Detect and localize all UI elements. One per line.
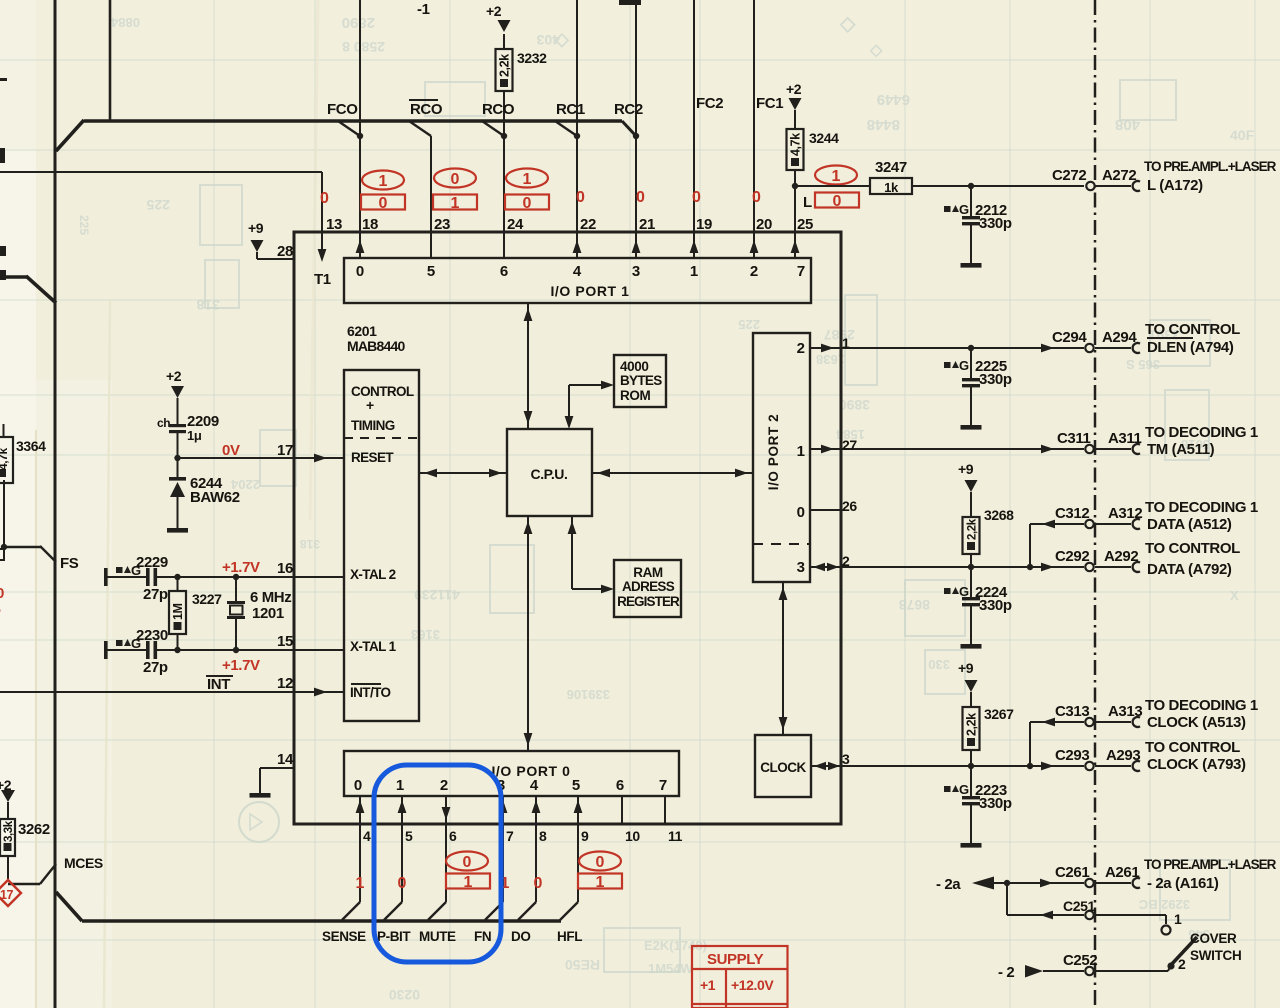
svg-text:- 2a: - 2a xyxy=(936,876,961,893)
svg-text:C292: C292 xyxy=(1055,548,1089,565)
svg-text:RC2: RC2 xyxy=(614,101,643,118)
svg-text:COVER: COVER xyxy=(1190,931,1237,946)
svg-text:RAM: RAM xyxy=(633,565,663,580)
svg-text:G: G xyxy=(959,358,969,373)
svg-text:TM (A511): TM (A511) xyxy=(1147,441,1215,458)
svg-text:2: 2 xyxy=(750,263,758,280)
svg-text:C261: C261 xyxy=(1055,864,1089,881)
svg-text:A293: A293 xyxy=(1106,747,1140,764)
svg-text:0: 0 xyxy=(833,193,842,210)
svg-text:X-TAL 1: X-TAL 1 xyxy=(350,639,397,654)
svg-text:6449: 6449 xyxy=(877,91,910,108)
svg-text:C312: C312 xyxy=(1055,505,1089,522)
svg-text:SWITCH: SWITCH xyxy=(1190,948,1241,963)
svg-text:C313: C313 xyxy=(1055,703,1089,720)
svg-text:3163: 3163 xyxy=(411,627,440,642)
svg-text:0884: 0884 xyxy=(110,15,140,30)
svg-text:BAW62: BAW62 xyxy=(190,489,240,506)
svg-text:-1: -1 xyxy=(417,1,430,18)
svg-text:REGISTER: REGISTER xyxy=(617,594,680,609)
svg-text:CLOCK (A513): CLOCK (A513) xyxy=(1147,714,1246,731)
svg-text:330p: 330p xyxy=(979,597,1012,614)
svg-text:25: 25 xyxy=(797,216,813,233)
svg-text:3890: 3890 xyxy=(839,397,870,413)
svg-text:1: 1 xyxy=(690,263,698,280)
svg-text:3227: 3227 xyxy=(192,591,222,607)
svg-text:23: 23 xyxy=(434,216,450,233)
svg-text:1k: 1k xyxy=(884,180,899,195)
svg-text:13: 13 xyxy=(326,216,342,233)
svg-text:1: 1 xyxy=(356,875,365,892)
svg-text:+2: +2 xyxy=(486,3,502,19)
svg-text:8: 8 xyxy=(539,828,547,844)
svg-text:408: 408 xyxy=(1115,116,1140,133)
svg-text:TO CONTROL: TO CONTROL xyxy=(1145,540,1240,557)
svg-text:A313: A313 xyxy=(1108,703,1142,720)
svg-text:G: G xyxy=(959,584,969,599)
svg-text:19: 19 xyxy=(696,216,712,233)
svg-text:27p: 27p xyxy=(143,586,168,603)
svg-text:6: 6 xyxy=(616,777,624,794)
svg-text:- 2: - 2 xyxy=(998,964,1014,981)
svg-text:40F: 40F xyxy=(1230,127,1255,143)
svg-text:330: 330 xyxy=(928,657,950,672)
svg-text:4: 4 xyxy=(530,777,539,794)
svg-text:3232: 3232 xyxy=(517,50,547,66)
svg-text:A311: A311 xyxy=(1108,430,1141,447)
svg-text:1: 1 xyxy=(797,443,805,460)
svg-text:21: 21 xyxy=(639,216,655,233)
svg-text:0: 0 xyxy=(379,195,388,212)
svg-text:T1: T1 xyxy=(314,271,331,288)
svg-text:1: 1 xyxy=(523,171,532,188)
svg-text:4000: 4000 xyxy=(620,359,648,374)
svg-text:P-BIT: P-BIT xyxy=(377,929,411,944)
svg-text:0: 0 xyxy=(451,171,460,188)
svg-text:RCO: RCO xyxy=(482,101,515,118)
svg-text:17: 17 xyxy=(277,442,293,459)
svg-text:20: 20 xyxy=(756,216,772,233)
svg-text:6201: 6201 xyxy=(347,323,377,339)
svg-text:TO PRE.AMPL.+LASER: TO PRE.AMPL.+LASER xyxy=(1144,159,1277,174)
svg-text:0: 0 xyxy=(354,777,362,794)
svg-text:1: 1 xyxy=(464,874,473,891)
svg-text:1: 1 xyxy=(451,195,460,212)
svg-text:◇: ◇ xyxy=(869,42,883,59)
svg-text:G: G xyxy=(959,782,969,797)
svg-text:2: 2 xyxy=(440,777,448,794)
svg-text:14: 14 xyxy=(277,751,294,768)
svg-text:+9: +9 xyxy=(248,220,264,236)
svg-text:DLEN (A794): DLEN (A794) xyxy=(1147,339,1234,356)
svg-text:TO CONTROL: TO CONTROL xyxy=(1145,739,1240,756)
svg-text:MCES: MCES xyxy=(64,855,103,871)
svg-text:0: 0 xyxy=(523,195,532,212)
svg-text:- 2a (A161): - 2a (A161) xyxy=(1147,875,1219,892)
svg-text:3247: 3247 xyxy=(875,159,907,176)
svg-text:8678: 8678 xyxy=(899,597,930,613)
svg-text:411239: 411239 xyxy=(414,587,460,603)
svg-text:ADRESS: ADRESS xyxy=(622,579,675,594)
svg-text:3244: 3244 xyxy=(809,130,839,146)
svg-text:318: 318 xyxy=(196,297,220,313)
svg-text:TO DECODING 1: TO DECODING 1 xyxy=(1145,697,1258,714)
svg-text:A292: A292 xyxy=(1104,548,1138,565)
svg-text:4,7k: 4,7k xyxy=(789,133,803,156)
svg-text:0: 0 xyxy=(797,504,805,521)
svg-text:0: 0 xyxy=(534,875,543,892)
svg-text:DO: DO xyxy=(511,929,530,944)
svg-text:0: 0 xyxy=(692,189,701,206)
svg-text:8448: 8448 xyxy=(867,116,900,133)
svg-text:6: 6 xyxy=(449,828,457,844)
svg-text:3: 3 xyxy=(842,751,850,767)
svg-text:+: + xyxy=(366,397,374,413)
svg-text:HFL: HFL xyxy=(557,929,582,944)
svg-text:10: 10 xyxy=(625,828,640,844)
svg-text:INT: INT xyxy=(207,676,230,693)
svg-text:3364: 3364 xyxy=(16,438,46,454)
svg-text:12: 12 xyxy=(277,675,293,692)
svg-text:ROM: ROM xyxy=(620,388,650,403)
svg-text:C272: C272 xyxy=(1052,167,1086,184)
svg-text:225: 225 xyxy=(146,197,170,213)
svg-text:1M54W: 1M54W xyxy=(648,961,694,976)
svg-text:3268: 3268 xyxy=(984,507,1014,523)
svg-text:+2: +2 xyxy=(786,81,802,97)
svg-text:C.P.U.: C.P.U. xyxy=(530,466,567,482)
svg-text:1M: 1M xyxy=(171,603,185,620)
svg-text:9: 9 xyxy=(581,828,589,844)
svg-text:3: 3 xyxy=(632,263,640,280)
svg-text:+12.0V: +12.0V xyxy=(731,977,774,993)
svg-text:TO PRE.AMPL.+LASER: TO PRE.AMPL.+LASER xyxy=(1144,857,1277,872)
svg-text:7: 7 xyxy=(506,828,514,844)
svg-text:TO CONTROL: TO CONTROL xyxy=(1145,321,1240,338)
svg-text:CONTROL: CONTROL xyxy=(351,384,414,399)
svg-text:3267: 3267 xyxy=(984,706,1014,722)
svg-text:0: 0 xyxy=(320,190,329,207)
svg-text:15: 15 xyxy=(277,633,293,650)
svg-text:TO DECODING 1: TO DECODING 1 xyxy=(1145,499,1258,516)
svg-text:C251: C251 xyxy=(1063,898,1095,914)
svg-text:SUPPLY: SUPPLY xyxy=(707,951,764,968)
svg-text:2987: 2987 xyxy=(824,327,855,343)
svg-text:FN: FN xyxy=(474,929,491,944)
svg-text:1: 1 xyxy=(842,335,850,351)
svg-text:C311: C311 xyxy=(1057,430,1090,447)
svg-text:5: 5 xyxy=(572,777,580,794)
svg-text:DATA (A512): DATA (A512) xyxy=(1147,516,1232,533)
svg-text:11: 11 xyxy=(668,828,683,844)
svg-text:318: 318 xyxy=(300,537,320,551)
svg-text:1μ: 1μ xyxy=(187,428,202,443)
svg-text:TO DECODING 1: TO DECODING 1 xyxy=(1145,424,1258,441)
svg-text:4: 4 xyxy=(363,828,371,844)
svg-text:◇: ◇ xyxy=(554,29,570,49)
svg-text:365 S: 365 S xyxy=(1126,357,1160,372)
svg-text:22: 22 xyxy=(580,216,596,233)
svg-text:0: 0 xyxy=(398,875,407,892)
svg-text:+2: +2 xyxy=(166,368,182,384)
svg-text:FC1: FC1 xyxy=(756,95,783,112)
svg-text:2229: 2229 xyxy=(136,554,168,571)
svg-text:+1: +1 xyxy=(700,977,716,993)
svg-text:I/O PORT 2: I/O PORT 2 xyxy=(766,414,781,491)
svg-text:FS: FS xyxy=(60,555,79,572)
svg-text:+1.7V: +1.7V xyxy=(222,657,260,674)
svg-text:2: 2 xyxy=(842,553,850,569)
svg-text:2580 8: 2580 8 xyxy=(342,39,385,55)
svg-text:A261: A261 xyxy=(1105,864,1139,881)
svg-text:2,2k: 2,2k xyxy=(967,518,979,540)
svg-text:TIMING: TIMING xyxy=(351,418,395,433)
svg-text:1: 1 xyxy=(1174,911,1182,927)
svg-text:X: X xyxy=(1230,588,1239,603)
svg-text:28: 28 xyxy=(277,243,293,260)
svg-text:C293: C293 xyxy=(1055,747,1089,764)
svg-text:7: 7 xyxy=(797,263,805,280)
svg-text:1: 1 xyxy=(379,173,388,190)
svg-text:18: 18 xyxy=(362,216,378,233)
svg-text:FC2: FC2 xyxy=(696,95,723,112)
svg-text:1: 1 xyxy=(832,168,841,185)
svg-text:2230: 2230 xyxy=(136,627,168,644)
svg-text:6: 6 xyxy=(500,263,508,280)
svg-text:RCO: RCO xyxy=(410,101,443,118)
svg-text:2,2k: 2,2k xyxy=(498,54,512,77)
svg-text:225: 225 xyxy=(738,317,760,332)
svg-text:+1.7V: +1.7V xyxy=(222,559,260,576)
svg-text:C252: C252 xyxy=(1063,952,1097,969)
svg-text:FCO: FCO xyxy=(327,101,358,118)
svg-text:A272: A272 xyxy=(1102,167,1136,184)
svg-text:A294: A294 xyxy=(1102,329,1137,346)
svg-text:0: 0 xyxy=(356,263,364,280)
svg-text:16: 16 xyxy=(277,560,293,577)
svg-text:330p: 330p xyxy=(979,795,1012,812)
svg-text:0: 0 xyxy=(596,854,605,871)
svg-text:24: 24 xyxy=(507,216,524,233)
svg-text:27: 27 xyxy=(842,437,857,453)
svg-text:+9: +9 xyxy=(958,660,974,676)
svg-text:INT/TO: INT/TO xyxy=(350,685,390,700)
svg-text:5: 5 xyxy=(427,263,435,280)
svg-text:RESET: RESET xyxy=(351,450,394,465)
svg-text:339106: 339106 xyxy=(567,687,610,702)
svg-text:DATA (A792): DATA (A792) xyxy=(1147,561,1232,578)
svg-text:3,3k: 3,3k xyxy=(3,820,15,842)
svg-text:6 MHz: 6 MHz xyxy=(250,589,291,606)
svg-text:1: 1 xyxy=(396,777,404,794)
svg-text:MAB8440: MAB8440 xyxy=(347,338,405,354)
svg-text:3: 3 xyxy=(797,559,805,576)
svg-text:I/O PORT 1: I/O PORT 1 xyxy=(550,283,629,299)
svg-text:330p: 330p xyxy=(979,215,1012,232)
svg-text:0: 0 xyxy=(0,585,4,602)
svg-text:7: 7 xyxy=(659,777,667,794)
svg-text:+9: +9 xyxy=(958,461,974,477)
svg-text:L: L xyxy=(803,194,812,211)
svg-text:0: 0 xyxy=(463,854,472,871)
svg-text:◇: ◇ xyxy=(839,13,856,35)
svg-text:2,2k: 2,2k xyxy=(965,713,979,736)
svg-text:2890: 2890 xyxy=(342,14,375,31)
svg-text:MUTE: MUTE xyxy=(419,929,456,944)
svg-text:3262: 3262 xyxy=(18,821,50,838)
svg-text:SENSE: SENSE xyxy=(322,929,366,944)
svg-text:27p: 27p xyxy=(143,659,168,676)
svg-text:2: 2 xyxy=(1178,956,1186,972)
svg-text:ch: ch xyxy=(157,416,170,430)
svg-text:4,7k: 4,7k xyxy=(0,448,10,470)
svg-text:3292 BC: 3292 BC xyxy=(1138,897,1190,912)
svg-text:0230: 0230 xyxy=(389,987,420,1003)
svg-text:0: 0 xyxy=(752,189,761,206)
svg-text:X-TAL 2: X-TAL 2 xyxy=(350,567,396,582)
svg-text:0: 0 xyxy=(636,189,645,206)
svg-text:1201: 1201 xyxy=(252,605,284,622)
svg-text:CLOCK (A793): CLOCK (A793) xyxy=(1147,756,1246,773)
svg-text:L (A172): L (A172) xyxy=(1147,177,1203,194)
svg-text:2: 2 xyxy=(797,340,805,357)
svg-text:4: 4 xyxy=(573,263,582,280)
svg-text:CLOCK: CLOCK xyxy=(760,760,806,775)
svg-text:5: 5 xyxy=(405,828,413,844)
svg-text:330p: 330p xyxy=(979,371,1012,388)
svg-text:RC1: RC1 xyxy=(556,101,585,118)
svg-text:BYTES: BYTES xyxy=(620,373,662,388)
svg-text:C294: C294 xyxy=(1052,329,1087,346)
svg-text:G: G xyxy=(959,202,969,217)
svg-text:RE50: RE50 xyxy=(565,957,600,973)
svg-text:1: 1 xyxy=(596,874,605,891)
svg-text:225: 225 xyxy=(77,215,91,235)
svg-text:0V: 0V xyxy=(222,442,240,459)
svg-text:17: 17 xyxy=(0,888,14,902)
svg-text:0: 0 xyxy=(576,189,585,206)
svg-text:A312: A312 xyxy=(1108,505,1142,522)
svg-text:26: 26 xyxy=(842,498,857,514)
